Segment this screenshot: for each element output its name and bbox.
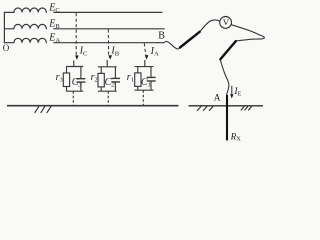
- current IA dashed arrow: [144, 43, 148, 59]
- bottom bar unit 3: [135, 89, 154, 91]
- svg-text:A: A: [214, 93, 221, 103]
- resistor r2: [100, 67, 102, 74]
- RC unit 1: [63, 60, 85, 105]
- station ground bus: [7, 105, 179, 107]
- bottom bar unit 2: [98, 90, 117, 92]
- ground bus earth hatching: [35, 106, 51, 113]
- neutral bus vertical wire: [3, 12, 5, 42]
- earth hatching right group: [241, 107, 252, 111]
- capacitor C2: [114, 67, 116, 79]
- svg-text:B: B: [158, 31, 165, 42]
- top bar unit 3: [135, 66, 154, 68]
- earth current IE arrow: [230, 86, 233, 99]
- RC unit 2: [98, 60, 120, 106]
- winding EC: [4, 8, 46, 12]
- stub to unit 1: [73, 60, 75, 66]
- wire thick segment: [220, 41, 236, 59]
- fallen conductor wire from B (thin part): [158, 41, 180, 49]
- wire down to electrode: [220, 60, 229, 95]
- svg-text:V: V: [223, 17, 230, 27]
- phase wire C: [54, 11, 162, 13]
- voltmeter V: [220, 17, 232, 29]
- resistor r1: [137, 67, 139, 73]
- current IB dashed arrow: [108, 30, 112, 60]
- stub unit 3 to ground bus: [142, 90, 144, 106]
- earth surface line right: [189, 105, 264, 107]
- wire voltmeter to earth electrode (thin loop): [231, 25, 264, 41]
- svg-text:O: O: [3, 43, 10, 53]
- earth hatching left group: [197, 107, 213, 111]
- top bar unit 2: [98, 66, 117, 68]
- winding EB: [4, 24, 46, 28]
- bottom bar unit 1: [66, 90, 83, 92]
- wire to voltmeter: [200, 20, 220, 32]
- stub unit 2 to ground bus: [107, 91, 109, 106]
- earth electrode rod Rx: [226, 95, 228, 141]
- top bar unit 1: [66, 66, 83, 68]
- current IC dashed arrow: [75, 13, 79, 60]
- fallen conductor thick segment: [180, 32, 200, 48]
- capacitor C3: [80, 67, 82, 79]
- winding EA: [4, 38, 46, 42]
- capacitor C1: [150, 67, 152, 78]
- stub to unit 3: [144, 60, 146, 67]
- RC unit 3: [135, 60, 156, 106]
- resistor r3: [66, 67, 68, 74]
- phase wire B: [54, 28, 165, 30]
- stub unit 1 to ground bus: [72, 91, 74, 106]
- stub to unit 2: [106, 60, 108, 67]
- phase wire A: [54, 42, 158, 44]
